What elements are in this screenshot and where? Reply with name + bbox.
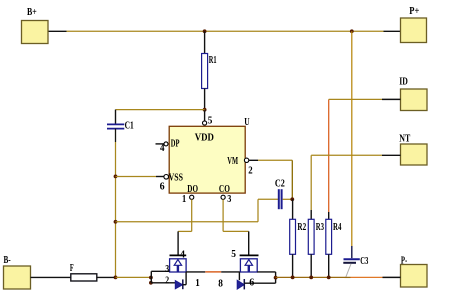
pin 4 DP	[156, 137, 180, 154]
wire P+ column down to C3	[351, 31, 353, 246]
resistor R4	[326, 99, 342, 277]
wire VM to C2/R2 node	[249, 160, 292, 199]
svg-text:B-: B-	[4, 254, 11, 265]
transistor Q2	[231, 249, 258, 272]
node junction VSS bus	[114, 175, 118, 179]
diode D2 body	[237, 279, 244, 289]
wire left bus C1 down	[115, 129, 117, 142]
node junction R4 bottom	[327, 276, 331, 280]
svg-text:VSS: VSS	[169, 171, 183, 182]
Q2 right top lead	[257, 271, 275, 273]
svg-text:VM: VM	[227, 154, 238, 166]
resistor R1	[202, 31, 217, 109]
svg-text:P+: P+	[409, 6, 419, 17]
pad NT	[399, 133, 427, 165]
svg-text:5: 5	[208, 115, 213, 126]
svg-text:U: U	[244, 116, 250, 127]
svg-text:P-: P-	[401, 254, 408, 266]
wire bus to Q1	[116, 276, 151, 278]
pad P+	[401, 6, 427, 42]
wire DO to Q1 gate	[178, 199, 192, 255]
wire ID	[329, 98, 401, 100]
svg-text:R1: R1	[209, 55, 217, 66]
wire B- to fuse	[31, 276, 71, 278]
svg-text:R2: R2	[297, 221, 306, 232]
pin 2 VM	[227, 154, 253, 176]
node junction R1 bottom	[203, 108, 207, 112]
pad B-	[4, 254, 31, 289]
wire VSS stub	[116, 176, 157, 178]
Q2 right vertical	[275, 272, 277, 283]
svg-text:C3: C3	[360, 254, 368, 266]
transistor Q1	[170, 249, 187, 272]
svg-text:4: 4	[180, 249, 185, 260]
svg-text:2: 2	[165, 275, 169, 286]
node junction Q2 right	[274, 276, 278, 280]
fuse F	[70, 262, 97, 281]
node junction bus y222	[114, 220, 118, 224]
node junction Q1 left lower	[149, 281, 153, 285]
pad ID	[399, 76, 427, 111]
svg-text:F: F	[70, 262, 74, 273]
resistor R3	[308, 155, 324, 277]
wire C1 top horizontal	[116, 109, 205, 111]
svg-text:DO: DO	[187, 183, 198, 195]
svg-text:1: 1	[195, 277, 200, 289]
svg-text:DP: DP	[171, 137, 180, 149]
wire CO to Q2 gate	[223, 199, 249, 255]
node junction at P+ column	[350, 29, 354, 33]
IC U body	[169, 116, 250, 193]
node junction bus bottom	[114, 276, 118, 280]
node junction at R1 top	[203, 29, 207, 33]
svg-text:3: 3	[165, 263, 169, 274]
pin 6 VSS	[160, 171, 183, 192]
wire C3 to rail diagonal	[346, 264, 351, 277]
resistor R2	[290, 199, 306, 277]
svg-text:8: 8	[218, 278, 223, 289]
wire junction to pin5	[204, 110, 206, 121]
capacitor C2	[275, 178, 292, 209]
svg-text:B+: B+	[27, 6, 37, 17]
wire B+ to P+ top rail	[48, 30, 401, 32]
svg-text:C2: C2	[275, 178, 285, 189]
svg-text:3: 3	[227, 193, 231, 204]
svg-text:5: 5	[231, 249, 236, 260]
svg-text:C1: C1	[125, 119, 134, 130]
svg-text:NT: NT	[399, 133, 410, 144]
pin 3 CO	[219, 183, 232, 204]
wire NT	[311, 154, 400, 156]
node junction Q1 left upper	[149, 276, 153, 280]
node junction C2/VM/R2	[290, 197, 294, 201]
wire bus to C2 left plate	[116, 199, 279, 222]
Q2 anode drop	[238, 272, 240, 280]
wire fuse to bus	[97, 276, 114, 278]
capacitor C1	[107, 110, 134, 131]
svg-text:2: 2	[248, 166, 253, 177]
Q1 pin3 lead	[151, 270, 169, 272]
diode D1 body	[175, 272, 186, 289]
wire Q1 source to Q2	[186, 272, 240, 290]
svg-text:4: 4	[160, 144, 165, 155]
svg-text:6: 6	[249, 278, 254, 289]
svg-text:ID: ID	[399, 76, 408, 87]
svg-text:1: 1	[182, 193, 187, 204]
svg-text:6: 6	[160, 182, 165, 193]
node junction R2 bottom	[291, 276, 295, 280]
svg-text:VDD: VDD	[195, 133, 214, 144]
pin 5 VDD	[203, 115, 213, 126]
Q1 pin2 lead	[151, 282, 175, 284]
pad B+	[22, 6, 49, 43]
svg-text:R4: R4	[333, 221, 342, 233]
svg-text:R3: R3	[316, 221, 324, 233]
capacitor C3	[343, 254, 368, 266]
node junction R3 bottom	[309, 276, 313, 280]
wire bottom rail right	[276, 276, 401, 278]
pin 1 DO	[182, 183, 198, 204]
Q1 left vertical	[150, 271, 152, 283]
Q2 cathode lead	[244, 282, 275, 284]
pad P-	[401, 254, 428, 287]
